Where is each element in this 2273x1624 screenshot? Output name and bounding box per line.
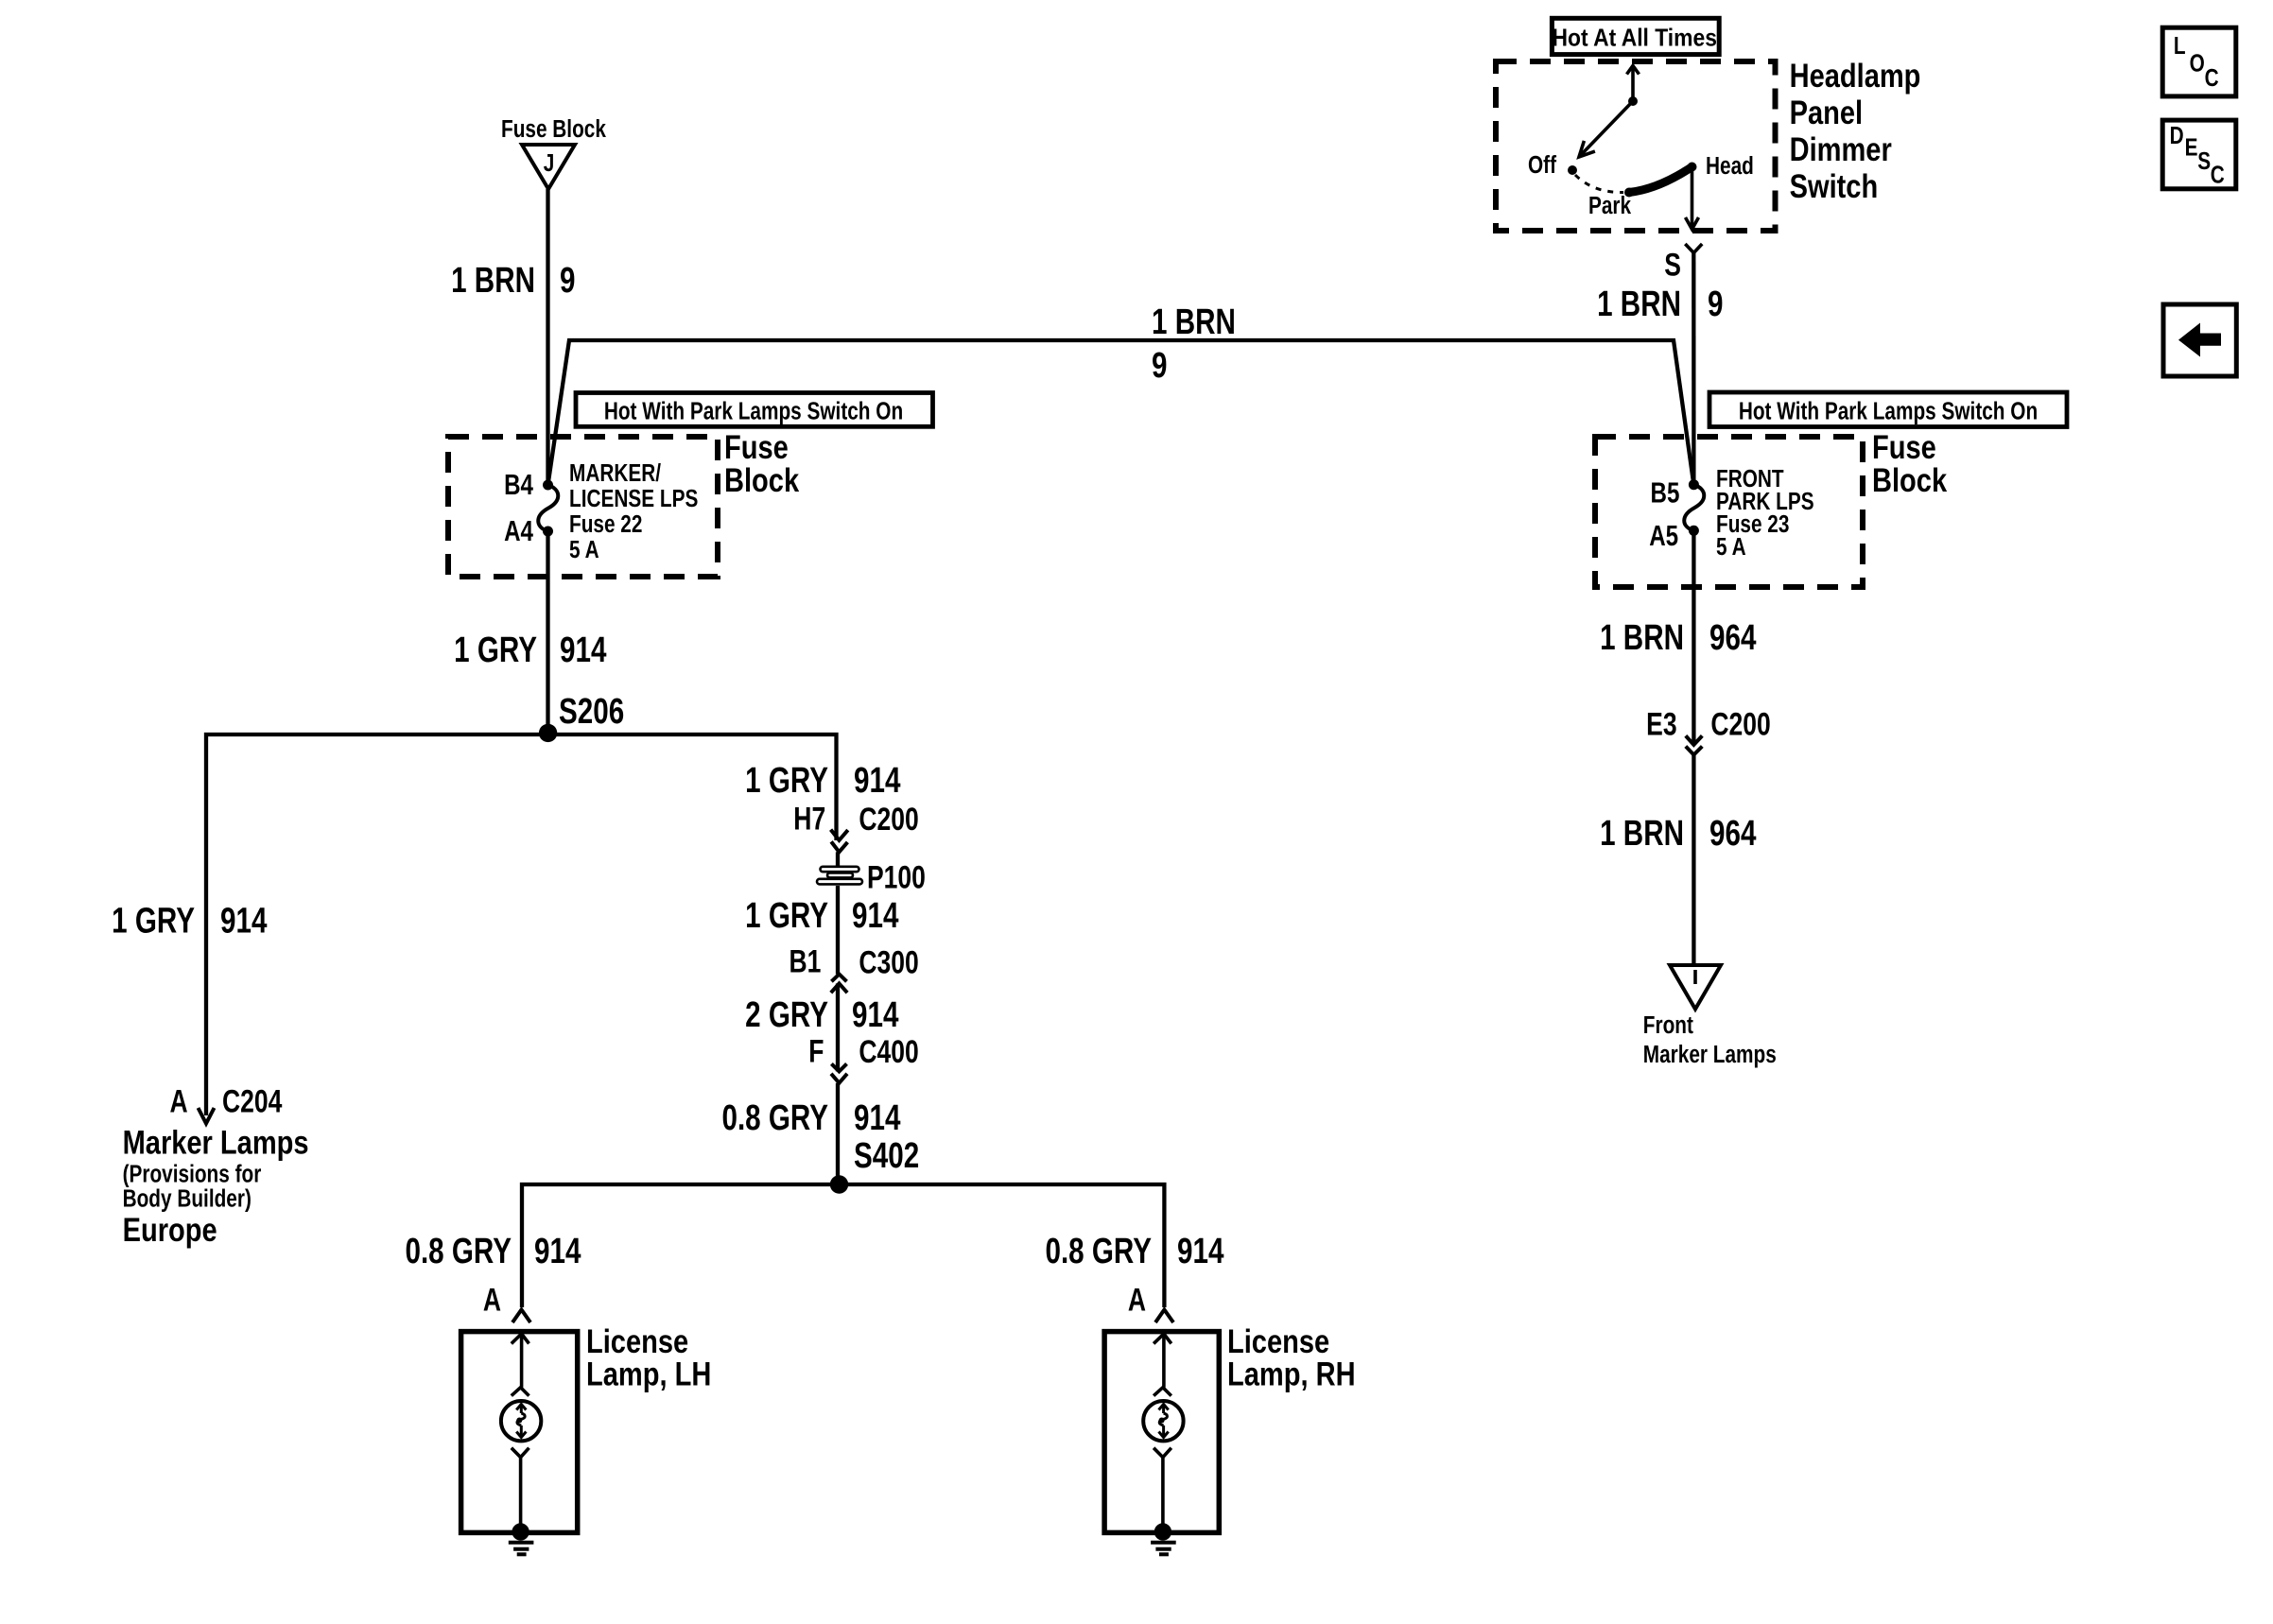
svg-text:914: 914	[854, 1098, 900, 1138]
wire label 0.8 GRY 914	[721, 1098, 900, 1138]
switch output arrow down	[1686, 167, 1699, 230]
lamp LH pin A chevron	[483, 1282, 530, 1322]
wiper contact Park to Head (thick)	[1624, 163, 1697, 198]
svg-text:9: 9	[560, 261, 575, 301]
back arrow box	[2163, 304, 2236, 376]
fuse block source triangle J	[501, 115, 607, 189]
svg-text:S402: S402	[854, 1136, 919, 1176]
wire label 1 GRY 914 (left leg)	[112, 901, 267, 941]
svg-text:914: 914	[1177, 1232, 1223, 1271]
switch arm arrow to Off	[1579, 101, 1633, 157]
fuse 22 text: MARKER/LICENSE LPS Fuse 22 5 A	[569, 459, 698, 563]
switch feed arrow up	[1627, 66, 1640, 107]
svg-text:License: License	[586, 1322, 688, 1359]
svg-text:B5: B5	[1651, 476, 1680, 510]
DESC legend box	[2162, 120, 2236, 189]
svg-text:E3: E3	[1646, 706, 1676, 742]
svg-text:Body Builder): Body Builder)	[123, 1184, 252, 1212]
wire label 0.8 GRY 914 (LH)	[405, 1232, 581, 1271]
svg-text:914: 914	[534, 1232, 581, 1271]
svg-text:C200: C200	[1710, 706, 1770, 742]
splice S402	[830, 1175, 848, 1193]
callout box: Hot At All Times	[1552, 18, 1719, 54]
svg-text:D: D	[2170, 122, 2184, 149]
svg-text:1 GRY: 1 GRY	[112, 901, 195, 941]
svg-text:1 GRY: 1 GRY	[745, 896, 828, 936]
wire S402 horizontal run to both license lamps	[522, 1184, 1164, 1307]
license lamp LH internals	[501, 1334, 541, 1531]
svg-text:Marker Lamps: Marker Lamps	[123, 1124, 309, 1161]
svg-text:Block: Block	[724, 461, 799, 498]
svg-text:LICENSE LPS: LICENSE LPS	[569, 485, 698, 512]
svg-text:E: E	[2185, 133, 2198, 161]
wire label 1 BRN 964 (above C200)	[1600, 618, 1756, 658]
bulb RH	[1143, 1401, 1183, 1441]
connector C200 pin E3 (double chevron)	[1646, 706, 1771, 754]
wire C400 to S402	[836, 1083, 840, 1184]
svg-text:Fuse: Fuse	[1872, 428, 1936, 465]
wire label 1 BRN 9 (horizontal run)	[1152, 302, 1236, 386]
svg-text:Park: Park	[1588, 192, 1632, 219]
front marker lamps destination triangle	[1670, 965, 1721, 1010]
wire C200 to P100	[836, 852, 840, 870]
svg-text:Fuse Block: Fuse Block	[501, 115, 607, 143]
svg-text:B1: B1	[789, 944, 821, 980]
connector C204 pin A arrow	[169, 1083, 282, 1123]
wire label 1 BRN 9 (left vertical)	[451, 261, 575, 301]
svg-text:S: S	[1664, 247, 1681, 283]
svg-text:Lamp, LH: Lamp, LH	[586, 1356, 711, 1392]
svg-text:C200: C200	[859, 802, 918, 838]
ground LH	[509, 1523, 534, 1554]
fuse 23 text: FRONT PARK LPS Fuse 23 5 A	[1716, 465, 1814, 561]
svg-text:MARKER/: MARKER/	[569, 459, 661, 487]
svg-text:1 BRN: 1 BRN	[1597, 285, 1681, 324]
svg-text:B4: B4	[504, 468, 533, 501]
svg-text:Europe: Europe	[123, 1211, 217, 1248]
license lamp RH internals	[1143, 1334, 1183, 1531]
wire S206 horizontal run	[206, 734, 837, 1115]
wire label 1 BRN 9 (right vertical)	[1597, 285, 1723, 324]
svg-text:1 BRN: 1 BRN	[1600, 814, 1684, 854]
ground RH	[1151, 1523, 1176, 1554]
license lamp LH box	[461, 1332, 578, 1533]
wire label 1 GRY 914 (middle branch above C200)	[745, 761, 900, 801]
svg-text:1 BRN: 1 BRN	[1600, 618, 1684, 658]
svg-text:A5: A5	[1649, 519, 1678, 552]
svg-text:Hot With Park Lamps Switch On: Hot With Park Lamps Switch On	[604, 397, 903, 424]
svg-text:C400: C400	[859, 1034, 918, 1070]
wire label 1 GRY 914	[454, 630, 606, 669]
bulb LH	[501, 1401, 541, 1441]
svg-text:914: 914	[560, 630, 606, 669]
label License Lamp, LH	[586, 1322, 711, 1392]
svg-text:914: 914	[220, 901, 267, 941]
svg-text:1 BRN: 1 BRN	[451, 261, 535, 301]
svg-text:Dimmer: Dimmer	[1790, 130, 1893, 167]
svg-text:964: 964	[1709, 618, 1756, 658]
svg-text:Hot With Park Lamps Switch On: Hot With Park Lamps Switch On	[1739, 397, 2038, 424]
svg-text:914: 914	[852, 896, 898, 936]
svg-text:1 GRY: 1 GRY	[454, 630, 537, 669]
svg-text:1 BRN: 1 BRN	[1152, 302, 1236, 342]
svg-text:Off: Off	[1528, 151, 1556, 179]
horizontal wire 1 BRN 9 linking both fuse feeds	[548, 340, 1694, 485]
svg-text:Marker Lamps: Marker Lamps	[1643, 1041, 1777, 1068]
fuse 23 element	[1684, 485, 1704, 531]
wire label 2 GRY 914	[745, 994, 898, 1034]
svg-text:0.8 GRY: 0.8 GRY	[721, 1098, 828, 1138]
svg-text:Block: Block	[1872, 461, 1947, 498]
svg-text:Headlamp: Headlamp	[1790, 57, 1921, 94]
svg-text:C: C	[2205, 64, 2219, 92]
license lamp RH box	[1104, 1332, 1219, 1533]
wire label 1 BRN 964 (below C200)	[1600, 814, 1756, 854]
svg-text:Front: Front	[1643, 1011, 1693, 1039]
svg-text:2 GRY: 2 GRY	[745, 994, 828, 1034]
node A4	[543, 527, 553, 537]
fuse block (right) dashed outline	[1595, 437, 1863, 587]
svg-text:A: A	[169, 1083, 187, 1119]
wire from J to fuse 22 terminal B4	[546, 189, 549, 485]
wire C200 to front marker lamps	[1692, 754, 1695, 965]
fuse 22 element	[538, 485, 558, 531]
svg-text:Fuse: Fuse	[724, 428, 789, 465]
lamp RH pin A chevron	[1128, 1282, 1173, 1322]
connector C300 pin B1 (double chevron up)	[789, 944, 918, 993]
label Fuse Block (right, large)	[1872, 428, 1947, 498]
svg-text:J: J	[544, 149, 555, 177]
wire label 1 GRY 914 (below P100)	[745, 896, 898, 936]
switch pin S chevron	[1664, 244, 1702, 283]
svg-text:914: 914	[854, 761, 900, 801]
svg-text:C204: C204	[222, 1083, 282, 1119]
svg-text:License: License	[1227, 1322, 1329, 1359]
label Front Marker Lamps	[1643, 1011, 1777, 1068]
svg-text:C300: C300	[859, 944, 918, 980]
wire label 0.8 GRY 914 (RH)	[1045, 1232, 1223, 1271]
wire from A4 to S206	[546, 531, 549, 733]
callout box: Hot With Park Lamps Switch On (right)	[1709, 392, 2067, 427]
node B5	[1689, 479, 1699, 490]
svg-text:5 A: 5 A	[569, 536, 599, 563]
callout box: Hot With Park Lamps Switch On (left)	[576, 393, 933, 427]
wire S to fuse 23 terminal B5	[1692, 252, 1695, 485]
svg-text:A4: A4	[504, 514, 533, 547]
wire P100 to C300	[836, 886, 840, 975]
svg-text:C: C	[2211, 161, 2225, 188]
svg-text:0.8 GRY: 0.8 GRY	[405, 1232, 512, 1271]
svg-text:H7: H7	[793, 801, 825, 837]
svg-text:A: A	[1128, 1282, 1146, 1318]
label Headlamp Panel Dimmer Switch	[1790, 57, 1921, 204]
connector C200 pin H7 (double chevron)	[793, 801, 919, 852]
node B4	[543, 480, 553, 491]
wire A5 to C200	[1692, 530, 1695, 744]
node Off	[1568, 165, 1577, 175]
svg-text:S206: S206	[559, 692, 624, 732]
svg-text:S: S	[2197, 147, 2211, 175]
label Fuse Block (left, large)	[724, 428, 799, 498]
grommet P100	[817, 860, 926, 896]
svg-text:Hot At All Times: Hot At All Times	[1552, 25, 1716, 52]
svg-text:0.8 GRY: 0.8 GRY	[1045, 1232, 1152, 1271]
fuse block (left) dashed outline	[448, 437, 718, 577]
svg-text:Lamp, RH: Lamp, RH	[1227, 1356, 1356, 1392]
svg-text:(Provisions for: (Provisions for	[123, 1160, 262, 1187]
svg-text:O: O	[2190, 49, 2205, 77]
svg-text:914: 914	[852, 994, 898, 1034]
wire C300 to C400	[836, 983, 840, 1071]
svg-text:964: 964	[1709, 814, 1756, 854]
svg-text:9: 9	[1152, 346, 1167, 386]
svg-text:P100: P100	[867, 860, 926, 896]
node A5	[1689, 526, 1699, 536]
dashed travel arc Off to Park	[1575, 175, 1623, 193]
svg-text:F: F	[808, 1033, 824, 1069]
svg-text:L: L	[2174, 32, 2186, 60]
label License Lamp, RH	[1227, 1322, 1356, 1392]
svg-text:Switch: Switch	[1790, 167, 1879, 204]
LOC legend box	[2162, 27, 2236, 96]
svg-text:9: 9	[1708, 285, 1723, 324]
label Marker Lamps (Provisions for Body Builder) Europe	[123, 1124, 309, 1249]
headlamp panel dimmer switch dashed outline	[1496, 61, 1776, 231]
svg-text:5 A: 5 A	[1716, 533, 1746, 561]
svg-text:1 GRY: 1 GRY	[745, 761, 828, 801]
svg-text:Fuse 22: Fuse 22	[569, 510, 642, 538]
svg-text:A: A	[483, 1282, 501, 1318]
svg-text:Panel: Panel	[1790, 94, 1863, 130]
svg-text:Head: Head	[1706, 152, 1754, 180]
connector C400 pin F (double chevron down)	[808, 1033, 919, 1082]
splice S206	[539, 724, 557, 742]
